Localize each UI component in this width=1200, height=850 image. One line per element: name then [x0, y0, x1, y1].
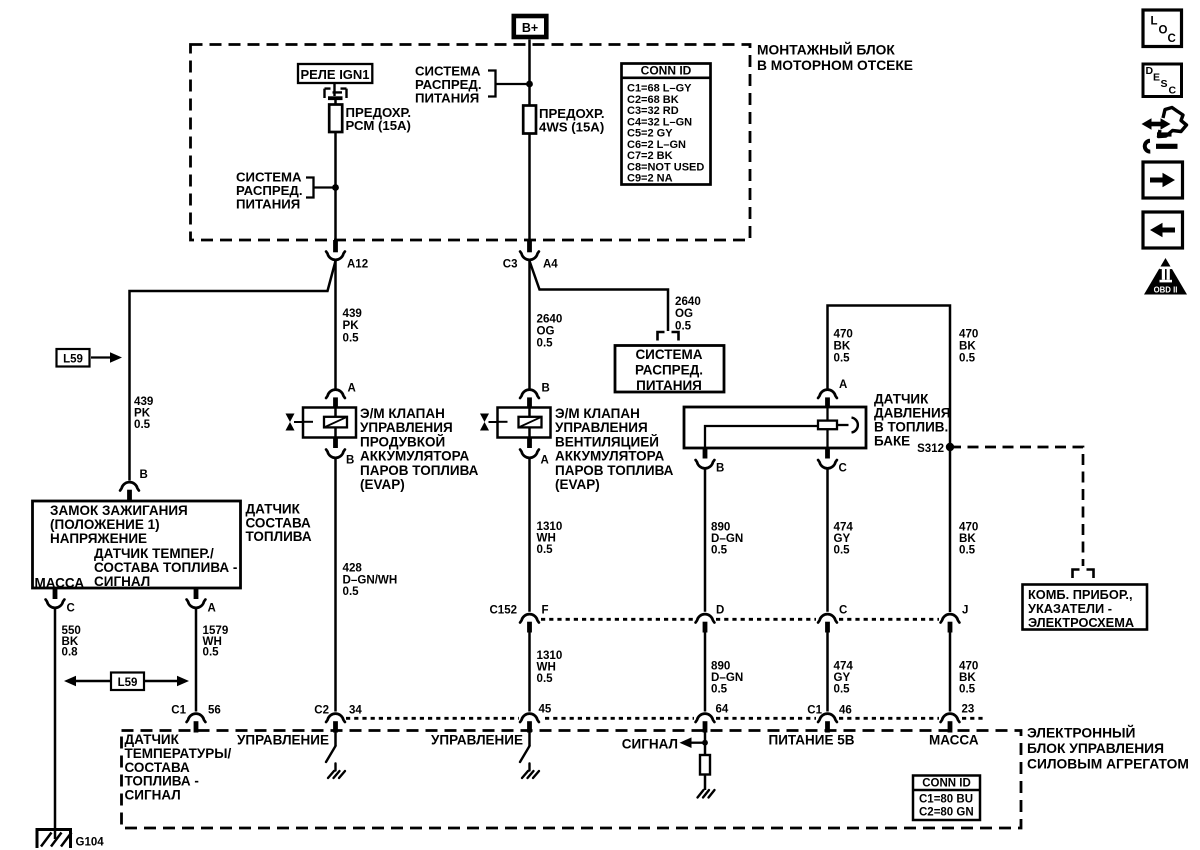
pin B vent valve	[527, 397, 532, 407]
purge valve actuator symbol	[286, 414, 295, 423]
junction signal	[702, 740, 708, 746]
underhood fuse block dashed outline	[191, 45, 751, 241]
connector arc 64	[696, 714, 715, 722]
connector arc A ignition switch	[187, 600, 206, 608]
callout box L59 upper	[57, 349, 123, 367]
pin 34	[333, 721, 338, 732]
ground symbol resistor	[698, 790, 715, 798]
PCM connector line	[346, 717, 984, 720]
svg-text:46: 46	[839, 705, 852, 717]
ground G104 symbol	[37, 830, 71, 849]
icon DESC	[1143, 64, 1182, 97]
svg-text:439PK0.5: 439PK0.5	[134, 395, 154, 431]
svg-text:ПИТАНИЕ 5В: ПИТАНИЕ 5В	[769, 733, 855, 748]
icon OBD II	[1144, 258, 1187, 295]
pin C3 A4	[527, 240, 532, 252]
svg-text:ПРЕДОХР.РСМ (15А): ПРЕДОХР.РСМ (15А)	[346, 105, 412, 133]
pin A12	[333, 240, 338, 252]
svg-text:СИСТЕМАРАСПРЕД.ПИТАНИЯ: СИСТЕМАРАСПРЕД.ПИТАНИЯ	[415, 64, 481, 106]
sensor internal wire B side	[705, 426, 818, 448]
pin 46	[825, 721, 830, 732]
svg-text:C6=2 L–GN: C6=2 L–GN	[627, 139, 686, 151]
svg-text:УПРАВЛЕНИЕ: УПРАВЛЕНИЕ	[431, 733, 523, 748]
junction on 4WS wire	[526, 81, 533, 88]
svg-text:J: J	[962, 605, 968, 617]
vent valve coil symbol	[519, 417, 542, 428]
connector arc B purge valve	[326, 450, 345, 458]
svg-text:СИСТЕМАРАСПРЕД.ПИТАНИЯ: СИСТЕМАРАСПРЕД.ПИТАНИЯ	[236, 170, 302, 212]
pin C tank sensor	[825, 448, 830, 459]
svg-text:Э/М КЛАПАНУПРАВЛЕНИЯПРОДУВКОЙА: Э/М КЛАПАНУПРАВЛЕНИЯПРОДУВКОЙАККУМУЛЯТОР…	[360, 406, 479, 492]
battery feed B+ terminal	[514, 16, 547, 37]
svg-text:C1=68 L–GY: C1=68 L–GY	[627, 83, 692, 95]
dashed wire S312 to cluster	[950, 447, 1083, 566]
svg-text:A: A	[839, 379, 847, 391]
svg-text:L59: L59	[118, 677, 138, 689]
svg-text:C: C	[67, 603, 75, 615]
vent valve actuator symbol	[480, 414, 489, 423]
fuse PCM 15A symbol	[329, 105, 342, 133]
svg-text:C8=NOT USED: C8=NOT USED	[627, 161, 704, 173]
wire to resistor	[704, 733, 707, 756]
svg-text:428D–GN/WH0.5: 428D–GN/WH0.5	[343, 562, 398, 599]
svg-text:РЕЛЕ IGN1: РЕЛЕ IGN1	[300, 67, 369, 82]
wire 470 BK top rail	[828, 306, 951, 613]
bracket to 4WS fuse wire	[488, 71, 530, 97]
svg-text:C152: C152	[490, 605, 518, 617]
pin C ignition switch	[53, 588, 58, 599]
wire 428 D-GN/WH down to 34	[334, 458, 337, 712]
wire C3 down to vent valve B	[528, 260, 531, 389]
svg-text:УПРАВЛЕНИЕ: УПРАВЛЕНИЕ	[237, 733, 329, 748]
pin C row	[825, 622, 830, 633]
wire 550 BK to G104	[54, 608, 57, 828]
bracket to PCM fuse wire	[306, 178, 336, 198]
svg-text:C: C	[839, 605, 847, 617]
svg-text:S312: S312	[917, 443, 944, 455]
wire 470 lower	[949, 633, 952, 712]
PCM dashed outline	[122, 731, 1022, 829]
wire through vent valve	[528, 408, 531, 438]
EVAP purge valve box	[303, 408, 356, 438]
svg-text:439PK0.5: 439PK0.5	[343, 307, 363, 344]
svg-text:2640OG0.5: 2640OG0.5	[675, 295, 701, 332]
svg-text:B: B	[542, 383, 550, 395]
wire 1310 WH lower	[528, 633, 531, 712]
pin 45	[527, 721, 532, 732]
svg-text:B: B	[716, 463, 724, 475]
off-page bracket to power distribution	[658, 332, 679, 341]
connector arc J	[941, 614, 960, 622]
junction on PCM wire	[332, 184, 339, 191]
svg-text:474GY0.5: 474GY0.5	[834, 660, 854, 696]
CONN ID table PCM	[913, 776, 980, 821]
svg-text:C5=2 GY: C5=2 GY	[627, 128, 673, 140]
svg-text:ДАТЧИКСОСТАВАТОПЛИВА: ДАТЧИКСОСТАВАТОПЛИВА	[246, 502, 312, 545]
wire branch 2640 OG to power dist	[530, 261, 669, 331]
svg-text:ПРЕДОХР.4WS (15А): ПРЕДОХР.4WS (15А)	[539, 106, 605, 135]
connector arc C row	[818, 614, 837, 622]
svg-text:C2: C2	[314, 705, 329, 717]
svg-text:ЗАМОК ЗАЖИГАНИЯ(ПОЛОЖЕНИЕ 1)НА: ЗАМОК ЗАЖИГАНИЯ(ПОЛОЖЕНИЕ 1)НАПРЯЖЕНИЕ	[50, 503, 188, 546]
svg-text:ДАТЧИКДАВЛЕНИЯВ ТОПЛИВ.БАКЕ: ДАТЧИКДАВЛЕНИЯВ ТОПЛИВ.БАКЕ	[874, 392, 950, 449]
pin J	[948, 622, 953, 633]
svg-text:B: B	[140, 469, 148, 481]
svg-text:B+: B+	[522, 21, 538, 35]
connector arc C tank sensor	[818, 460, 837, 468]
purge valve coil symbol	[324, 417, 347, 428]
connector arc A12	[326, 252, 345, 260]
svg-text:C4=32 L–GN: C4=32 L–GN	[627, 116, 692, 128]
power distribution box	[615, 346, 724, 393]
sensor wiper crescent	[852, 418, 858, 433]
svg-text:2640OG0.5: 2640OG0.5	[537, 313, 563, 350]
svg-text:CONN ID: CONN ID	[922, 778, 971, 790]
svg-text:ЭЛЕКТРОННЫЙБЛОК УПРАВЛЕНИЯСИЛО: ЭЛЕКТРОННЫЙБЛОК УПРАВЛЕНИЯСИЛОВЫМ АГРЕГА…	[1027, 724, 1189, 772]
svg-text:C3=32 RD: C3=32 RD	[627, 105, 679, 117]
wire 1310 WH to C152	[528, 458, 531, 612]
connector arc A tank sensor	[818, 390, 837, 398]
svg-text:1579WH0.5: 1579WH0.5	[203, 624, 229, 659]
wire to switch 2	[528, 733, 531, 747]
svg-text:470BK0.5: 470BK0.5	[834, 328, 853, 365]
pin B tank sensor	[703, 448, 708, 459]
wire fuse 4WS down to C3 A4	[528, 134, 531, 241]
svg-text:C1: C1	[807, 705, 822, 717]
wire 1579 WH down	[195, 608, 198, 712]
wire A12 down to valve A	[334, 260, 337, 389]
callout L59 double arrow	[64, 673, 189, 691]
svg-text:C1=80 BU: C1=80 BU	[919, 794, 973, 806]
svg-text:F: F	[542, 605, 549, 617]
wire resistor to ground	[704, 775, 707, 791]
svg-text:C9=2 NA: C9=2 NA	[627, 173, 673, 185]
splice S312	[946, 443, 954, 451]
connector line C152	[541, 618, 939, 621]
svg-text:1310WH0.5: 1310WH0.5	[537, 520, 563, 556]
sensor internal resistor	[818, 421, 837, 430]
connector arc B vent valve	[520, 390, 539, 398]
wire 890 lower	[704, 633, 707, 712]
svg-text:C1: C1	[171, 705, 186, 717]
instrument cluster box	[1023, 585, 1148, 631]
fuse 4WS 15A symbol	[523, 106, 536, 134]
wire through purge valve	[334, 408, 337, 438]
svg-text:C2=68 BK: C2=68 BK	[627, 94, 679, 106]
connector arc B ignition switch	[120, 482, 139, 490]
svg-text:C: C	[839, 463, 847, 475]
svg-text:СИГНАЛ: СИГНАЛ	[622, 737, 678, 752]
svg-text:A: A	[348, 383, 356, 395]
connector arc C3 A4	[520, 252, 539, 260]
connector arc A vent valve	[520, 450, 539, 458]
svg-text:МОНТАЖНЫЙ БЛОКВ МОТОРНОМ ОТСЕК: МОНТАЖНЫЙ БЛОКВ МОТОРНОМ ОТСЕКЕ	[757, 41, 913, 73]
switch blade 2	[520, 746, 530, 762]
sensor internal wire to wiper	[837, 424, 849, 426]
svg-text:64: 64	[716, 704, 729, 716]
wire to switch 1	[334, 733, 337, 747]
svg-text:A: A	[208, 603, 216, 615]
connector arc 56	[187, 714, 206, 722]
wire 890 D-GN upper	[704, 469, 707, 612]
svg-text:34: 34	[349, 705, 362, 717]
connector arc F	[520, 614, 539, 622]
svg-text:КОМБ. ПРИБОР.,УКАЗАТЕЛИ -ЭЛЕКТ: КОМБ. ПРИБОР.,УКАЗАТЕЛИ -ЭЛЕКТРОСХЕМА	[1028, 587, 1134, 630]
wire branch A12 to ignition switch B	[130, 261, 336, 481]
switch blade 1	[326, 746, 336, 762]
pin D	[703, 622, 708, 633]
pin A purge valve	[333, 397, 338, 407]
pin A tank sensor	[825, 397, 830, 407]
icon back arrow	[1143, 212, 1183, 248]
svg-text:470BK0.5: 470BK0.5	[959, 660, 978, 696]
svg-text:45: 45	[539, 704, 552, 716]
svg-text:890D–GN0.5: 890D–GN0.5	[711, 521, 743, 557]
svg-text:LOC: LOC	[1151, 16, 1176, 46]
svg-text:890D–GN0.5: 890D–GN0.5	[711, 660, 743, 696]
svg-text:1310WH0.5: 1310WH0.5	[537, 649, 563, 685]
svg-text:23: 23	[962, 704, 975, 716]
connector arc 34	[326, 714, 345, 722]
connector arc C ignition switch	[46, 600, 65, 608]
relay IGN1 contact symbol	[325, 83, 347, 98]
svg-text:C7=2 BK: C7=2 BK	[627, 150, 673, 162]
ignition switch block box	[33, 501, 241, 588]
relay IGN1 box	[298, 64, 372, 83]
pin A vent valve	[527, 438, 532, 449]
svg-text:ДАТЧИКТЕМПЕРАТУРЫ/СОСТАВАТОПЛИ: ДАТЧИКТЕМПЕРАТУРЫ/СОСТАВАТОПЛИВА -СИГНАЛ	[125, 732, 232, 803]
pin A ignition switch	[194, 588, 199, 599]
svg-text:474GY0.5: 474GY0.5	[834, 521, 854, 557]
connector arc A purge valve	[326, 390, 345, 398]
svg-text:550BK0.8: 550BK0.8	[62, 624, 81, 659]
pin F	[527, 622, 532, 633]
svg-text:470BK0.5: 470BK0.5	[959, 521, 978, 557]
svg-text:470BK0.5: 470BK0.5	[959, 328, 978, 365]
signal arrow	[691, 742, 705, 744]
svg-text:Э/М КЛАПАНУПРАВЛЕНИЯВЕНТИЛЯЦИЕ: Э/М КЛАПАНУПРАВЛЕНИЯВЕНТИЛЯЦИЕЙАККУМУЛЯТ…	[555, 406, 674, 492]
icon forward arrow	[1143, 162, 1183, 198]
pin 56	[194, 721, 199, 732]
EVAP vent valve box	[498, 408, 551, 438]
connector arc 46	[818, 714, 837, 722]
svg-text:OBD II: OBD II	[1154, 286, 1178, 295]
svg-text:A: A	[541, 455, 549, 467]
svg-text:DESC: DESC	[1146, 65, 1177, 97]
svg-text:56: 56	[208, 705, 221, 717]
wire relay to fuse PCM	[334, 100, 337, 105]
pin 23	[948, 721, 953, 732]
connector arc D	[696, 614, 715, 622]
svg-text:C3: C3	[503, 259, 518, 271]
icon LOC	[1143, 10, 1182, 47]
svg-text:A4: A4	[543, 259, 558, 271]
svg-text:МАССА: МАССА	[929, 733, 979, 748]
CONN ID table fuse block	[622, 64, 711, 185]
svg-text:СИСТЕМАРАСПРЕД.ПИТАНИЯ: СИСТЕМАРАСПРЕД.ПИТАНИЯ	[635, 347, 703, 393]
wire 474 GY upper	[826, 469, 829, 612]
pin B purge valve	[333, 438, 338, 449]
off-page bracket to instrument cluster	[1073, 570, 1094, 579]
connector arc 23	[941, 714, 960, 722]
svg-text:C2=80 GN: C2=80 GN	[919, 807, 974, 819]
svg-text:D: D	[716, 605, 724, 617]
fuel tank pressure sensor box	[684, 407, 866, 448]
svg-text:G104: G104	[76, 837, 105, 849]
svg-text:A12: A12	[347, 259, 368, 271]
pin 64	[703, 721, 708, 732]
wire fuse PCM down to A12	[334, 132, 337, 240]
svg-text:ДАТЧИК ТЕМПЕР./СОСТАВА ТОПЛИВА: ДАТЧИК ТЕМПЕР./СОСТАВА ТОПЛИВА -СИГНАЛ	[94, 546, 237, 589]
svg-text:L59: L59	[63, 354, 83, 366]
ground symbol switch 1	[328, 764, 345, 779]
sensor internal wire A to C	[826, 407, 828, 448]
connector arc 45	[520, 714, 539, 722]
svg-text:CONN ID: CONN ID	[641, 64, 692, 78]
connector arc B tank sensor	[696, 460, 715, 468]
wire B+ to fuse 4WS	[528, 40, 531, 106]
PCM pullup resistor	[700, 755, 710, 775]
pin B ignition switch	[127, 490, 132, 502]
ground symbol switch 2	[522, 764, 539, 779]
wire 474 lower	[826, 633, 829, 712]
svg-text:B: B	[346, 455, 354, 467]
svg-text:МАССА: МАССА	[35, 576, 85, 591]
icon harness repair	[1142, 108, 1187, 152]
